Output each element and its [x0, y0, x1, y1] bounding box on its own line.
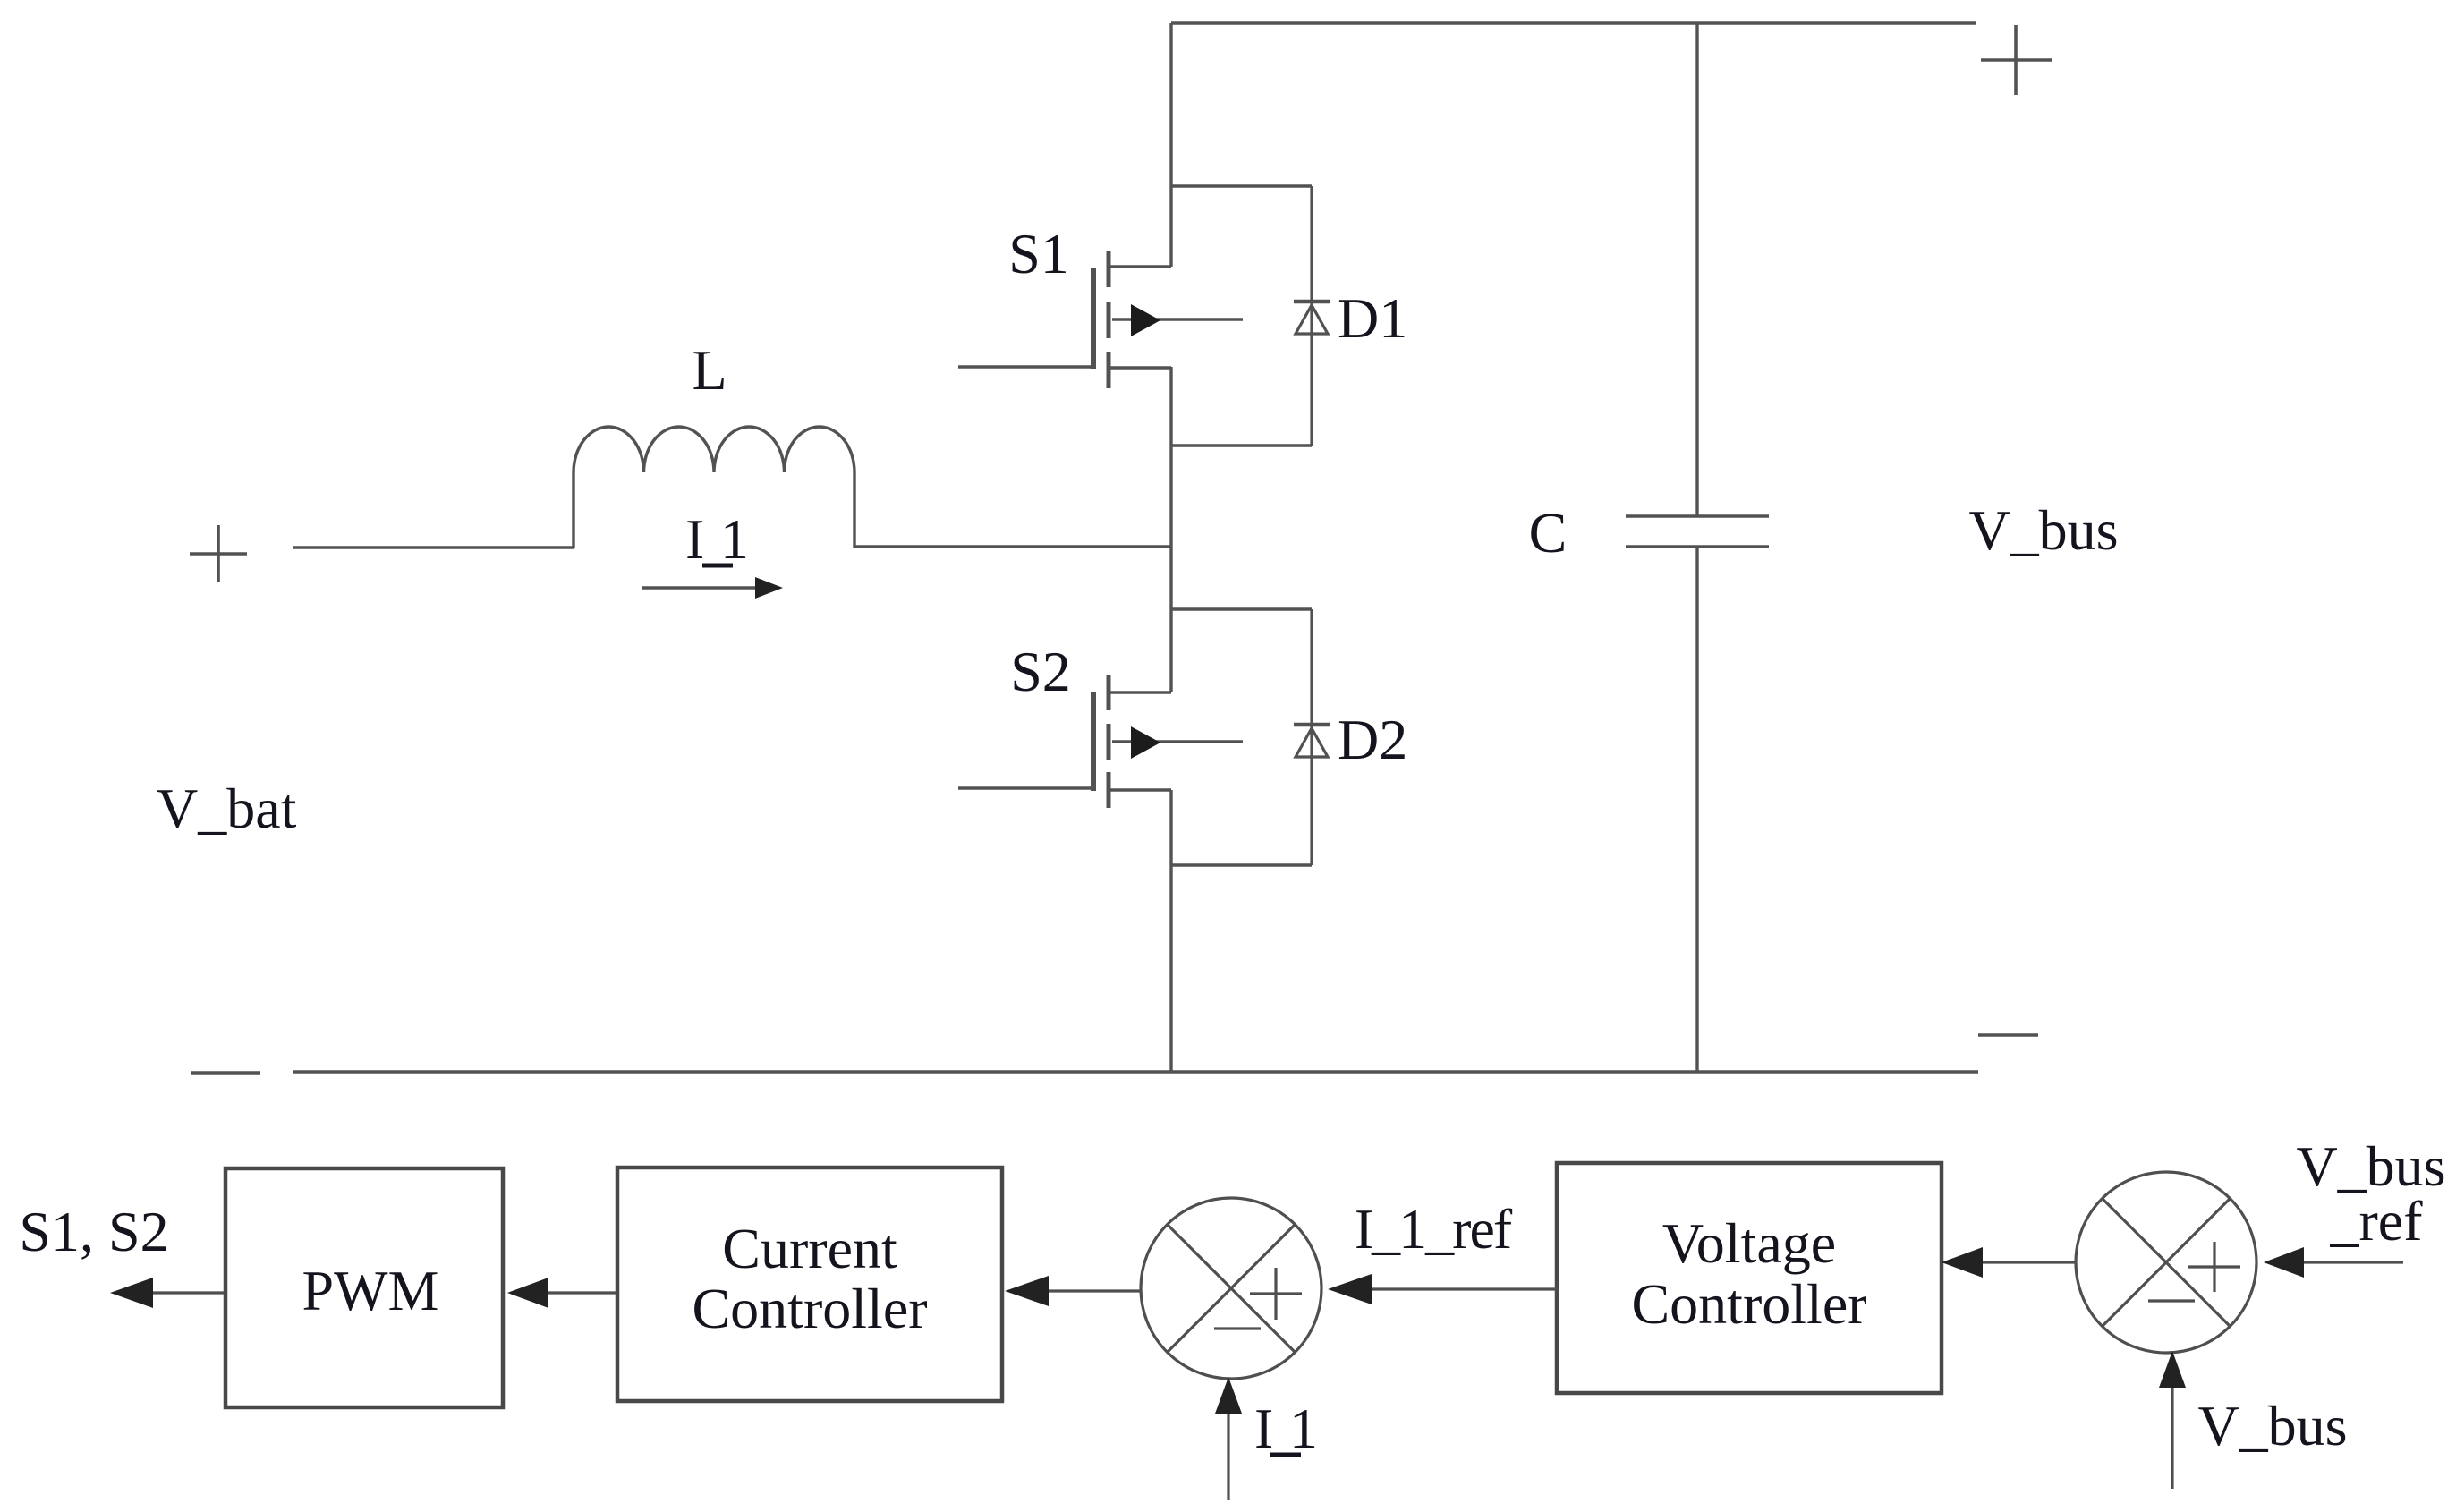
arrow Voltage Controller to SJ1 [1328, 1274, 1558, 1304]
S2 drain lead [1109, 691, 1171, 693]
block PWM [225, 1168, 503, 1407]
svg-text:_ref: _ref [2329, 1189, 2423, 1253]
SJ2 plus sign [2188, 1265, 2240, 1268]
S2 source lead [1109, 788, 1171, 791]
svg-text:D2: D2 [1338, 708, 1407, 771]
S1 body arrow [1112, 318, 1243, 320]
node + terminal V_bus top right [1981, 25, 2052, 95]
svg-text:V_bat: V_bat [157, 777, 297, 840]
block Current Controller [617, 1168, 1002, 1401]
wire bottom rail [293, 1070, 1978, 1073]
wire switch-node vertical middle (S1 source to S2 drain) [1169, 367, 1172, 692]
svg-text:C: C [1529, 501, 1568, 565]
S1 gate bar [1091, 268, 1096, 369]
svg-text:1: 1 [720, 507, 749, 571]
node - terminal V_bat bottom left [191, 1071, 260, 1074]
svg-text:L: L [692, 338, 727, 402]
arrow I_1 into SJ1 [1215, 1377, 1242, 1500]
S1 source lead [1109, 366, 1171, 369]
SJ2 X diagonals [2103, 1199, 2230, 1326]
wire switch-node vertical upper (S1 drain to top rail) [1169, 23, 1172, 267]
S2 gate lead [958, 786, 1093, 789]
SJ1 minus sign [1214, 1327, 1261, 1329]
transistor S1 (MOSFET) [958, 251, 1243, 388]
svg-text:S2: S2 [1010, 640, 1071, 703]
wire D1 bottom branch [1171, 444, 1312, 446]
wire top rail [1171, 21, 1976, 24]
capacitor C [1626, 23, 1769, 1072]
svg-text:D1: D1 [1338, 286, 1407, 350]
svg-text:I: I [685, 507, 704, 571]
S1 channel segments [1107, 251, 1111, 287]
SJ2 circle [2076, 1172, 2256, 1353]
SJ1 X diagonals [1168, 1225, 1295, 1352]
diode D2 [1294, 609, 1330, 865]
svg-text:Controller: Controller [692, 1277, 927, 1340]
block Voltage Controller [1557, 1163, 1942, 1393]
svg-text:V_bus: V_bus [1968, 498, 2118, 562]
svg-text:I_1_ref: I_1_ref [1355, 1197, 1513, 1261]
svg-text:S1: S1 [1008, 222, 1069, 285]
S2 channel segments [1107, 675, 1111, 710]
node + terminal V_bat [190, 525, 247, 582]
wire switch-node vertical lower (S2 source to bottom rail) [1169, 790, 1172, 1072]
arrow SJ1 to Current Controller [1005, 1276, 1141, 1306]
SJ1 plus sign [1250, 1292, 1302, 1295]
svg-text:PWM: PWM [302, 1259, 439, 1322]
inductor L [574, 427, 854, 548]
S2 gate bar [1091, 692, 1096, 791]
arrow SJ2 to Voltage Controller [1942, 1247, 2075, 1278]
arrow V_bus into SJ2 [2159, 1351, 2186, 1489]
transistor S2 (MOSFET) [958, 675, 1243, 808]
SJ1 circle [1141, 1198, 1321, 1379]
SJ2 minus sign [2148, 1299, 2195, 1302]
wire D2 bottom branch [1171, 863, 1312, 866]
S1 drain lead [1109, 265, 1171, 268]
wire D2 top branch [1171, 607, 1312, 610]
svg-text:Voltage: Voltage [1662, 1211, 1836, 1275]
svg-text:Current: Current [722, 1217, 897, 1280]
arrow V_bus_ref into SJ2 [2264, 1247, 2403, 1278]
summing junction SJ2 [2076, 1172, 2256, 1353]
wire left input to inductor [293, 546, 574, 548]
diode D1 [1294, 186, 1330, 446]
S2 body arrow [1112, 740, 1243, 743]
svg-text:1: 1 [1289, 1397, 1318, 1460]
svg-text:Controller: Controller [1631, 1272, 1866, 1336]
node - terminal V_bus bottom right [1978, 1033, 2038, 1036]
wire inductor to switch node [854, 545, 1171, 548]
wire D1 top branch [1171, 184, 1312, 187]
summing junction SJ1 [1141, 1198, 1321, 1379]
arrow PWM output S1,S2 [110, 1278, 225, 1308]
S1 gate lead [958, 365, 1093, 368]
arrow Current Controller to PWM [507, 1278, 617, 1308]
svg-text:I: I [1254, 1397, 1273, 1460]
svg-text:V_bus: V_bus [2197, 1394, 2347, 1457]
svg-text:S1, S2: S1, S2 [19, 1200, 168, 1263]
I_1 arrow under inductor [642, 577, 783, 599]
